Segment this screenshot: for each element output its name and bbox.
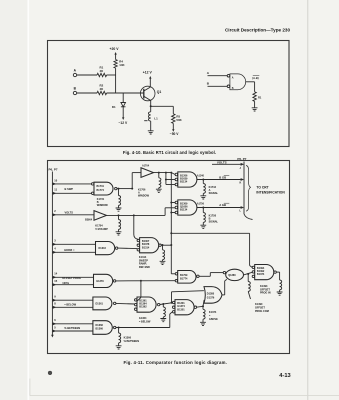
svg-text:−50 V: −50 V	[170, 132, 180, 136]
svg-text:9: 9	[54, 295, 56, 299]
svg-text:15: 15	[54, 279, 57, 283]
svg-text:VOLTS: VOLTS	[217, 161, 227, 165]
svg-text:Circuit Description—Type 230: Circuit Description—Type 230	[225, 28, 290, 33]
svg-text:% BETWEEN: % BETWEEN	[124, 340, 140, 343]
svg-text:L: L	[240, 209, 242, 212]
svg-text:B1731: B1731	[97, 185, 105, 188]
svg-text:A1340: A1340	[197, 174, 205, 177]
svg-text:B1314: B1314	[142, 246, 150, 249]
svg-text:B1301: B1301	[177, 308, 185, 311]
svg-text:5: 5	[54, 325, 56, 329]
svg-text:4K: 4K	[100, 87, 105, 91]
svg-text:11: 11	[54, 188, 57, 192]
svg-text:=: =	[209, 315, 211, 318]
svg-text:4-13: 4-13	[279, 373, 290, 379]
svg-text:D1366: D1366	[96, 324, 104, 327]
svg-text:K: K	[240, 182, 242, 185]
svg-text:B: B	[74, 87, 77, 91]
svg-text:B: B	[232, 87, 234, 90]
svg-text:Q1: Q1	[157, 90, 162, 94]
svg-text:B1134: B1134	[180, 209, 188, 212]
svg-text:G1376: G1376	[207, 296, 215, 299]
svg-text:Fig. 4-10. Basic RT1 circuit a: Fig. 4-10. Basic RT1 circuit and logic s…	[123, 150, 216, 155]
svg-text:REF END: REF END	[139, 266, 150, 269]
svg-text:J: J	[240, 167, 242, 170]
svg-text:TO CRT: TO CRT	[256, 185, 268, 189]
svg-text:B1362: B1362	[139, 306, 147, 309]
svg-text:G1379: G1379	[96, 280, 104, 283]
svg-text:SIGNAL: SIGNAL	[209, 221, 219, 224]
svg-text:WINDOW: WINDOW	[138, 195, 150, 198]
svg-text:B SWP: B SWP	[65, 187, 74, 191]
svg-text:R1: R1	[258, 96, 262, 100]
svg-text:PROG COM: PROG COM	[255, 310, 269, 313]
svg-text:A: A	[207, 71, 210, 75]
svg-text:D1316: D1316	[99, 247, 107, 250]
svg-text:B1366: B1366	[96, 328, 104, 331]
svg-text:8: 8	[54, 302, 56, 306]
svg-text:4K: 4K	[100, 69, 105, 73]
svg-text:INTENSIFICATION: INTENSIFICATION	[256, 190, 285, 194]
svg-text:B GB: B GB	[219, 175, 226, 179]
svg-text:K1374: K1374	[209, 311, 217, 314]
svg-text:L1: L1	[154, 117, 158, 121]
svg-text:B1774: B1774	[97, 189, 105, 192]
svg-text:B1709: B1709	[180, 274, 188, 277]
svg-text:V M RAMP: V M RAMP	[95, 228, 108, 231]
svg-text:Fig. 4-11. Comparator function: Fig. 4-11. Comparator function logic dia…	[123, 360, 227, 365]
svg-text:OFFSET PROG: OFFSET PROG	[62, 276, 81, 280]
svg-text:= BELOW: = BELOW	[139, 320, 151, 323]
svg-text:50K: 50K	[176, 118, 182, 122]
svg-text:14: 14	[54, 272, 57, 276]
svg-text:SIGNAL: SIGNAL	[209, 192, 219, 195]
svg-text:−12 V: −12 V	[119, 121, 129, 125]
svg-text:A: A	[74, 69, 77, 73]
svg-text:6: 6	[54, 318, 56, 322]
svg-text:P6, P7: P6, P7	[237, 157, 246, 161]
svg-text:B1774: B1774	[180, 278, 188, 281]
svg-text:VOLTS: VOLTS	[65, 211, 74, 215]
svg-text:100%: 100%	[62, 281, 69, 285]
svg-text:P6, P7: P6, P7	[49, 167, 58, 171]
svg-text:D1361: D1361	[96, 303, 104, 306]
svg-text:ABOVE: ABOVE	[209, 318, 218, 321]
svg-text:B: B	[207, 82, 210, 86]
svg-text:14K: 14K	[119, 63, 125, 67]
svg-text:B1374: B1374	[257, 273, 265, 276]
svg-text:% BETWEEN: % BETWEEN	[64, 326, 80, 330]
svg-text:10: 10	[54, 178, 57, 182]
svg-text:= BELOW: = BELOW	[64, 302, 76, 306]
svg-text:PROG IN: PROG IN	[260, 292, 271, 295]
svg-text:B1134: B1134	[180, 181, 188, 184]
svg-text:A1704: A1704	[142, 164, 150, 167]
svg-text:D1: D1	[112, 105, 116, 109]
svg-text:A: A	[232, 77, 234, 80]
svg-text:+20 V: +20 V	[110, 47, 120, 51]
svg-text:A GB: A GB	[219, 203, 226, 207]
svg-text:K1704: K1704	[95, 225, 103, 228]
svg-text:Q1380: Q1380	[228, 274, 236, 277]
svg-text:3: 3	[54, 239, 56, 243]
svg-text:(A·B): (A·B)	[252, 76, 258, 80]
svg-text:B3904: B3904	[85, 218, 93, 221]
svg-text:2: 2	[54, 209, 56, 213]
svg-text:A1756: A1756	[197, 203, 205, 206]
svg-text:4: 4	[54, 247, 56, 251]
svg-text:D1380: D1380	[207, 293, 215, 296]
svg-text:WINDOW: WINDOW	[97, 204, 109, 207]
svg-text:+12 V: +12 V	[143, 70, 153, 74]
svg-text:HORIZ =: HORIZ =	[64, 248, 75, 252]
